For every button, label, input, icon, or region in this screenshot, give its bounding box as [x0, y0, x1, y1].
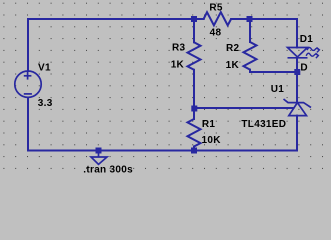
voltage source V1 — [15, 71, 41, 97]
wire R1 bottom lead — [193, 147, 195, 151]
wire D1 top lead — [296, 19, 298, 48]
wire REF from divider to U1 — [194, 107, 294, 109]
wire R5 right lead — [231, 18, 297, 20]
wire R2 bottom to node D — [250, 70, 297, 72]
resistor R1 — [188, 119, 201, 147]
svg-text:R3: R3 — [172, 42, 186, 53]
svg-text:1K: 1K — [171, 60, 185, 71]
svg-text:U1: U1 — [271, 84, 285, 95]
resistor R3 — [188, 42, 201, 70]
node junction (194,150.5) — [191, 148, 197, 154]
svg-text:V1: V1 — [38, 63, 51, 74]
resistor R2 — [244, 42, 257, 70]
wire R3 top lead — [193, 19, 195, 42]
wire U1 anode to bottom rail — [296, 116, 298, 151]
node junction D (297.3,72) — [294, 69, 300, 75]
wire R2 top lead — [249, 19, 251, 42]
wire top rail — [28, 18, 204, 20]
svg-text:10K: 10K — [202, 135, 222, 146]
wire R3 bottom lead — [193, 70, 195, 109]
svg-text:D1: D1 — [300, 34, 314, 45]
node junction (249.5,19) — [247, 16, 253, 22]
wire left column upper (to V1 top) — [27, 19, 29, 71]
wire R1 top lead — [193, 109, 195, 119]
svg-text:.tran 300s: .tran 300s — [83, 164, 133, 175]
svg-text:48: 48 — [210, 27, 222, 38]
svg-text:1K: 1K — [226, 60, 240, 71]
node junction (194,19) — [191, 16, 197, 22]
node junction ground (98.5,150.5) — [96, 148, 102, 154]
svg-text:R2: R2 — [226, 43, 240, 54]
svg-text:R1: R1 — [202, 119, 216, 130]
wire bottom rail — [28, 150, 297, 152]
wire R5 left lead — [194, 18, 204, 20]
svg-text:TL431ED: TL431ED — [241, 119, 286, 130]
svg-text:3.3: 3.3 — [38, 98, 53, 109]
wire left column lower (V1 bottom to rail) — [27, 98, 29, 151]
wire D1 bottom lead — [296, 58, 298, 72]
TL431 U1 — [284, 99, 312, 116]
resistor R5 — [204, 12, 232, 25]
node junction (194.3,108.5) — [191, 106, 197, 112]
svg-text:D: D — [300, 62, 308, 73]
svg-text:R5: R5 — [209, 2, 223, 13]
ground — [91, 151, 107, 165]
wire node D to U1 cathode — [296, 72, 298, 103]
LED D1 — [288, 48, 308, 58]
